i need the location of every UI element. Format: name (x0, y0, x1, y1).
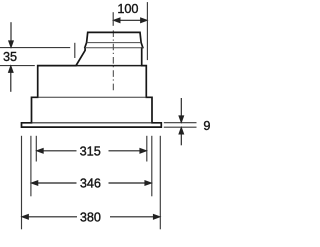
interior line tier2 bottom (flange top) (32, 122, 153, 124)
dim 315 (37, 149, 146, 153)
bottom extension lines left (21, 136, 23, 230)
dim 35: down arrow (9, 22, 13, 47)
dim line 100 (114, 18, 147, 22)
dim 380 (22, 215, 160, 219)
collar base line (77, 65, 142, 67)
collar seam line upper (87, 42, 141, 44)
hood body outline (22, 32, 162, 127)
dim 9: down arrow (179, 98, 183, 122)
interior line tier1 bottom (38, 96, 147, 98)
dim 35: upper extension line (0, 47, 70, 49)
svg-text:35: 35 (3, 50, 17, 64)
collar seam line lower (85, 47, 143, 49)
extension line 100 right (146, 2, 148, 60)
dim 9: extension lines (164, 122, 197, 124)
svg-text:9: 9 (203, 119, 210, 133)
center line (dash-dot) (112, 30, 114, 92)
svg-text:346: 346 (80, 177, 101, 191)
dim 35: lower extension line (0, 65, 35, 67)
dim 346 (32, 181, 152, 185)
dim 9: up arrow (179, 128, 183, 146)
side thin vertical left of collar (74, 43, 76, 58)
bottom extension lines right (146, 136, 148, 162)
svg-text:380: 380 (80, 211, 101, 225)
extension line 100 left (112, 12, 114, 26)
dim 35: up arrow (9, 66, 13, 92)
svg-text:315: 315 (80, 144, 101, 158)
svg-text:100: 100 (117, 2, 138, 16)
